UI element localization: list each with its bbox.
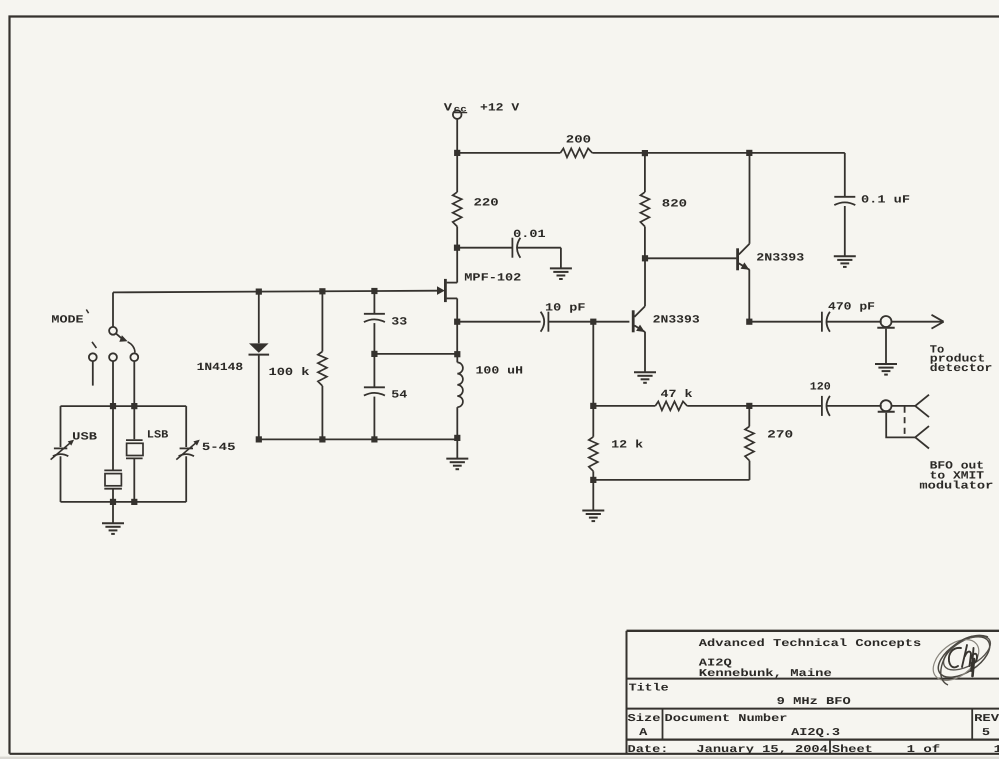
svg-text:LSB: LSB: [147, 430, 169, 442]
svg-text:10 pF: 10 pF: [545, 303, 586, 315]
svg-text:54: 54: [391, 389, 407, 401]
svg-text:Advanced Technical Concepts: Advanced Technical Concepts: [699, 638, 922, 650]
svg-text:47 k: 47 k: [661, 389, 693, 401]
svg-text:33: 33: [391, 316, 407, 328]
svg-text:0.1 uF: 0.1 uF: [861, 194, 910, 206]
svg-text:USB: USB: [72, 431, 97, 443]
svg-text:Title: Title: [629, 683, 669, 695]
svg-text:9 MHz BFO: 9 MHz BFO: [777, 696, 851, 708]
svg-text:5: 5: [982, 727, 990, 739]
svg-text:1 of: 1 of: [907, 744, 941, 756]
svg-text:2N3393: 2N3393: [653, 315, 700, 327]
svg-text:Sheet: Sheet: [832, 744, 873, 756]
svg-text:MODE: MODE: [51, 315, 84, 327]
svg-text:Date:: Date:: [628, 744, 669, 756]
svg-text:12 k: 12 k: [611, 440, 643, 452]
svg-text:A: A: [639, 727, 648, 739]
svg-text:470 pF: 470 pF: [828, 301, 875, 313]
svg-text:+12 V: +12 V: [480, 103, 520, 115]
svg-text:detector: detector: [930, 363, 993, 375]
svg-text:MPF-102: MPF-102: [464, 273, 521, 285]
svg-text:100 uH: 100 uH: [476, 366, 524, 378]
svg-text:cc: cc: [454, 104, 467, 114]
svg-text:5-45: 5-45: [202, 442, 236, 454]
svg-text:220: 220: [474, 198, 499, 210]
svg-text:REV: REV: [974, 713, 999, 725]
svg-text:200: 200: [566, 134, 591, 146]
svg-text:Size: Size: [628, 713, 661, 725]
svg-text:Document Number: Document Number: [665, 713, 788, 725]
svg-text:AI2Q.3: AI2Q.3: [791, 727, 840, 739]
svg-text:January 15, 2004: January 15, 2004: [696, 744, 828, 756]
svg-text:modulator: modulator: [919, 481, 993, 493]
svg-text:V: V: [444, 103, 453, 115]
svg-text:100 k: 100 k: [269, 367, 310, 379]
svg-text:1: 1: [994, 744, 999, 756]
svg-text:270: 270: [767, 430, 793, 442]
svg-text:2N3393: 2N3393: [756, 252, 804, 264]
svg-text:1N4148: 1N4148: [197, 362, 244, 374]
svg-text:120: 120: [810, 382, 831, 394]
svg-text:Kennebunk, Maine: Kennebunk, Maine: [699, 668, 832, 680]
svg-text:820: 820: [662, 199, 687, 211]
svg-text:0.01: 0.01: [513, 229, 546, 241]
